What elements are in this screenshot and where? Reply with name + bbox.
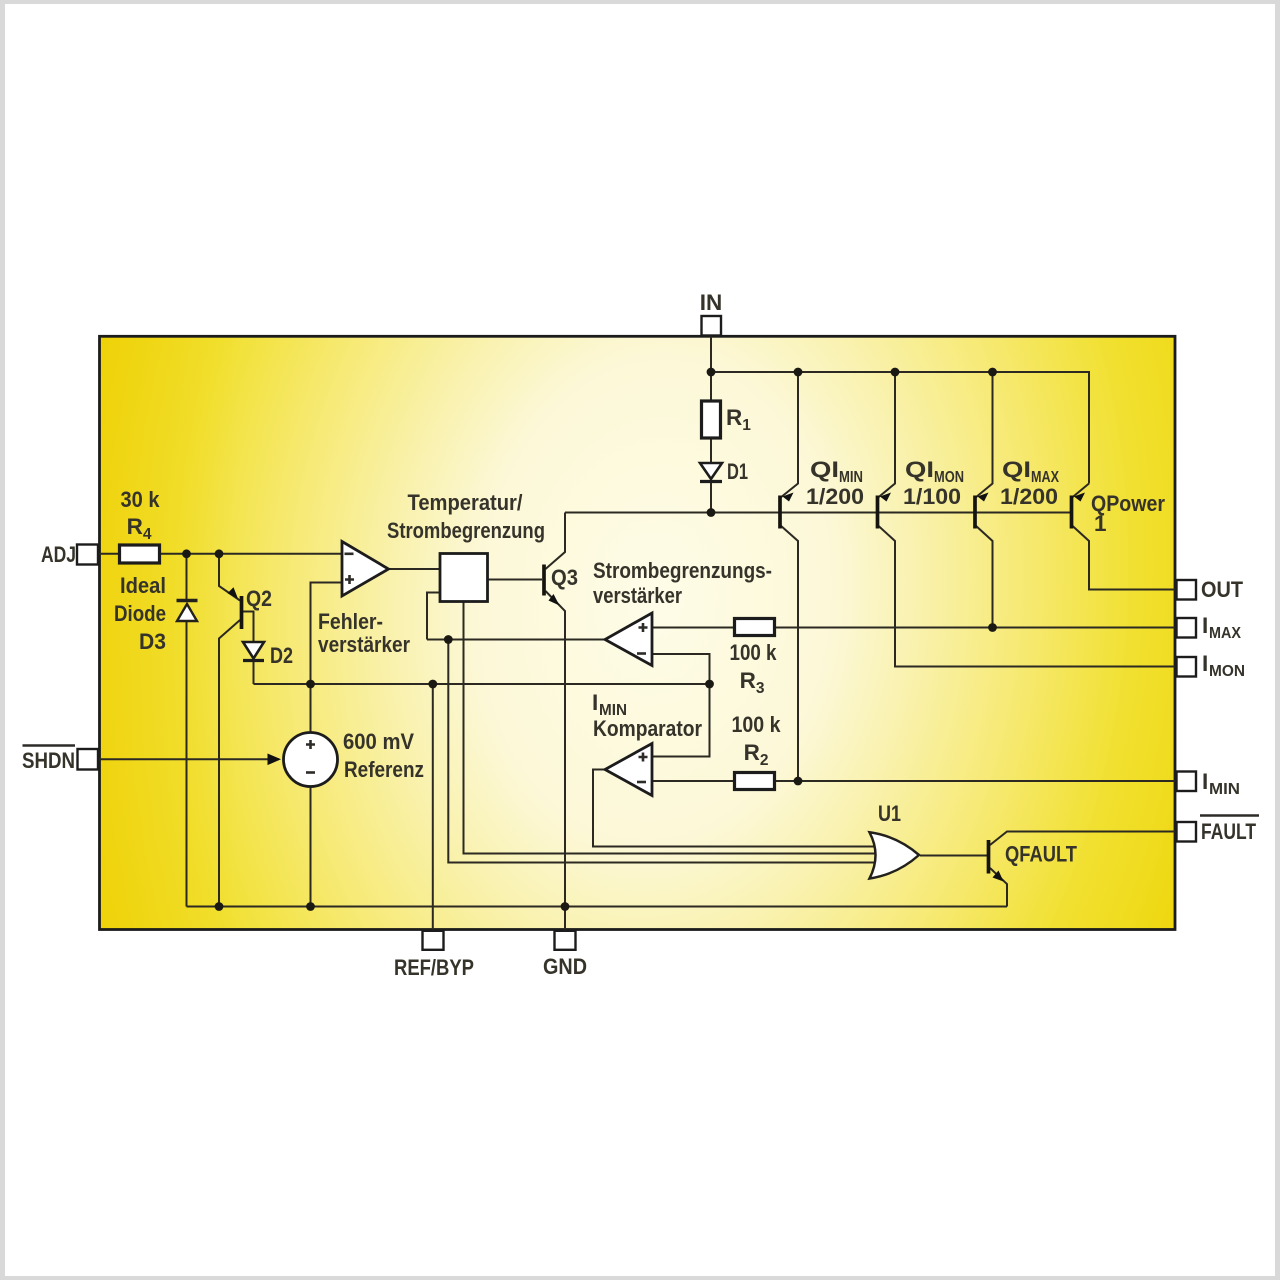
svg-text:QI: QI: [905, 457, 934, 482]
wire R1 to D1: [710, 438, 712, 463]
transistor QFAULT: [989, 840, 1004, 882]
svg-text:I: I: [1202, 651, 1208, 676]
node ADJ/Q2 junction: [215, 549, 224, 558]
wire R3 to IMAX pin: [775, 627, 1177, 629]
block Temperatur/Strombegrenzung: [440, 554, 488, 602]
wire limit amp minus node: [652, 654, 710, 757]
wire D1 to base bus: [710, 483, 712, 513]
wire Q3 collector to bus: [546, 513, 566, 570]
source 600 mV Referenz: [268, 733, 338, 787]
node IMAX/QIMAX junction: [988, 623, 997, 632]
IC body (yellow block): [100, 336, 1176, 929]
wire limit amp feedback: [427, 593, 440, 640]
node GND/ground bus junction: [561, 902, 570, 911]
wire QPower collector to OUT: [1072, 525, 1177, 590]
wire Q2 collector down: [219, 620, 240, 907]
wire reference rail 600mV: [254, 683, 710, 685]
svg-text:100 k: 100 k: [730, 640, 777, 665]
pin IMAX: [1177, 618, 1197, 638]
wire base bus: [565, 512, 1070, 514]
svg-text:OUT: OUT: [1201, 577, 1243, 602]
svg-text:I: I: [1202, 769, 1208, 794]
wire node A vertical to D3: [186, 554, 188, 600]
svg-text:MON: MON: [1209, 663, 1245, 680]
diode D2: [243, 642, 264, 661]
diode D3: [177, 601, 198, 622]
transistor Q3: [544, 565, 560, 606]
resistor R4: [120, 545, 160, 563]
wire D3 to bottom bus: [186, 622, 188, 907]
svg-text:D3: D3: [139, 629, 166, 654]
wire limit amp output: [427, 639, 605, 641]
transistor Q2: [228, 587, 242, 629]
wire IN pin to top bus: [710, 335, 712, 372]
node REF/BYP junction: [428, 680, 437, 689]
wire error amp plus input: [311, 583, 343, 733]
svg-text:1: 1: [1094, 511, 1107, 536]
svg-text:ADJ: ADJ: [41, 542, 76, 567]
pin FAULT: [1177, 822, 1197, 842]
wire comparator minus to R2: [652, 780, 735, 782]
transistor QIMAX: [975, 493, 989, 529]
svg-text:Q3: Q3: [551, 565, 578, 590]
op-amp Strombegrenzungsverstaerker: [605, 613, 652, 666]
overline SHDN: [23, 744, 76, 747]
pin IMON: [1177, 657, 1197, 677]
node reference/error amp junction: [306, 680, 315, 689]
svg-text:verstärker: verstärker: [318, 632, 410, 657]
svg-text:REF/BYP: REF/BYP: [394, 955, 474, 980]
node Q2 collector/ground bus junction: [215, 902, 224, 911]
wire QIMAX collector: [975, 525, 993, 628]
svg-text:1/200: 1/200: [1000, 484, 1058, 509]
wire QPower emitter diag: [1072, 484, 1090, 499]
svg-text:U1: U1: [878, 801, 901, 826]
svg-text:Ideal: Ideal: [120, 573, 166, 598]
pin SHDN: [78, 749, 99, 770]
wire comparator output to OR gate: [593, 770, 878, 847]
node QIMIN emitter junction: [794, 368, 803, 377]
svg-text:Strombegrenzungs-: Strombegrenzungs-: [593, 558, 772, 583]
resistor R1: [702, 401, 721, 438]
diode D1: [700, 463, 722, 482]
wire QIMAX emitter: [975, 372, 993, 498]
pin OUT: [1177, 580, 1197, 600]
svg-text:QI: QI: [810, 457, 839, 482]
svg-text:GND: GND: [543, 954, 587, 979]
svg-text:MIN: MIN: [1209, 781, 1240, 798]
node IMIN/QIMIN junction: [794, 777, 803, 786]
node D1/base bus junction: [707, 508, 716, 517]
svg-text:IN: IN: [700, 290, 723, 315]
svg-text:SHDN: SHDN: [22, 748, 75, 773]
node reference/ground bus junction: [306, 902, 315, 911]
svg-text:30 k: 30 k: [121, 487, 160, 512]
svg-text:verstärker: verstärker: [593, 583, 682, 608]
svg-text:Komparator: Komparator: [593, 716, 702, 741]
wire R2 to IMIN pin: [775, 780, 1177, 782]
pin REF/BYP: [423, 931, 444, 950]
wire bottom ground bus: [187, 906, 1008, 908]
wire QFAULT collector to FAULT pin: [990, 832, 1177, 846]
transistor QIMIN: [780, 493, 794, 529]
wire OR output to QFAULT base: [920, 855, 987, 857]
svg-text:I: I: [1202, 613, 1208, 638]
node QIMAX emitter junction: [988, 368, 997, 377]
wire ADJ input line: [98, 553, 342, 555]
wire QFAULT emitter: [990, 868, 1007, 907]
svg-text:1/100: 1/100: [903, 484, 961, 509]
wire error amp output: [389, 568, 441, 570]
op-amp Fehlerverstaerker: [342, 542, 389, 597]
wire QIMON emitter: [878, 372, 896, 498]
wire temp box to Q3 base: [488, 579, 543, 581]
svg-text:MAX: MAX: [1209, 625, 1242, 642]
svg-text:D2: D2: [270, 643, 293, 668]
wire QIMIN collector: [780, 525, 798, 781]
node ADJ/D3 junction: [182, 549, 191, 558]
wire R1 top lead: [710, 372, 712, 401]
svg-text:1/200: 1/200: [806, 484, 864, 509]
wire top supply bus: [711, 372, 1089, 484]
pin IMIN: [1177, 772, 1197, 792]
svg-text:Q2: Q2: [246, 586, 272, 611]
svg-text:Fehler-: Fehler-: [318, 609, 383, 634]
pin ADJ: [77, 545, 98, 565]
svg-text:QI: QI: [1002, 457, 1031, 482]
wire Q3 emitter to GND: [546, 591, 566, 931]
overline FAULT: [1200, 814, 1259, 817]
transistor QIMON: [878, 493, 892, 529]
pin GND: [555, 931, 576, 950]
wire limit amp output to OR gate: [448, 640, 878, 863]
wire Q2 emitter lead: [219, 554, 240, 601]
svg-text:Temperatur/: Temperatur/: [408, 490, 524, 515]
node QIMON emitter junction: [891, 368, 900, 377]
svg-text:FAULT: FAULT: [1201, 819, 1256, 844]
svg-text:I: I: [592, 690, 598, 715]
svg-text:100 k: 100 k: [732, 712, 781, 737]
pin IN: [702, 316, 722, 336]
svg-text:D1: D1: [727, 459, 748, 484]
resistor R2: [735, 773, 775, 790]
svg-text:Diode: Diode: [114, 601, 166, 626]
svg-text:Strombegrenzung: Strombegrenzung: [387, 518, 545, 543]
wire Q2 base to D2: [243, 612, 254, 642]
wire SHDN line: [98, 758, 279, 760]
wire QIMIN emitter: [780, 372, 798, 498]
transistor QPower: [1072, 493, 1086, 529]
resistor R3: [735, 619, 775, 636]
node limit amp output junction: [444, 635, 453, 644]
wire REF/BYP vertical: [432, 684, 434, 931]
wire D2 to reference rail: [253, 662, 255, 684]
svg-text:Referenz: Referenz: [344, 757, 424, 782]
comparator IMIN Komparator: [605, 744, 652, 796]
wire reference to bottom bus: [310, 787, 312, 907]
wire QIMON collector: [878, 525, 1177, 667]
gate U1 (OR): [870, 832, 920, 878]
wire limit amp plus to R3: [652, 627, 735, 629]
wire temp box to OR gate: [464, 602, 887, 854]
node limit amp minus junction: [705, 680, 714, 689]
svg-text:600 mV: 600 mV: [343, 729, 414, 754]
svg-text:QFAULT: QFAULT: [1005, 842, 1077, 867]
node IN/R1 junction: [707, 368, 716, 377]
